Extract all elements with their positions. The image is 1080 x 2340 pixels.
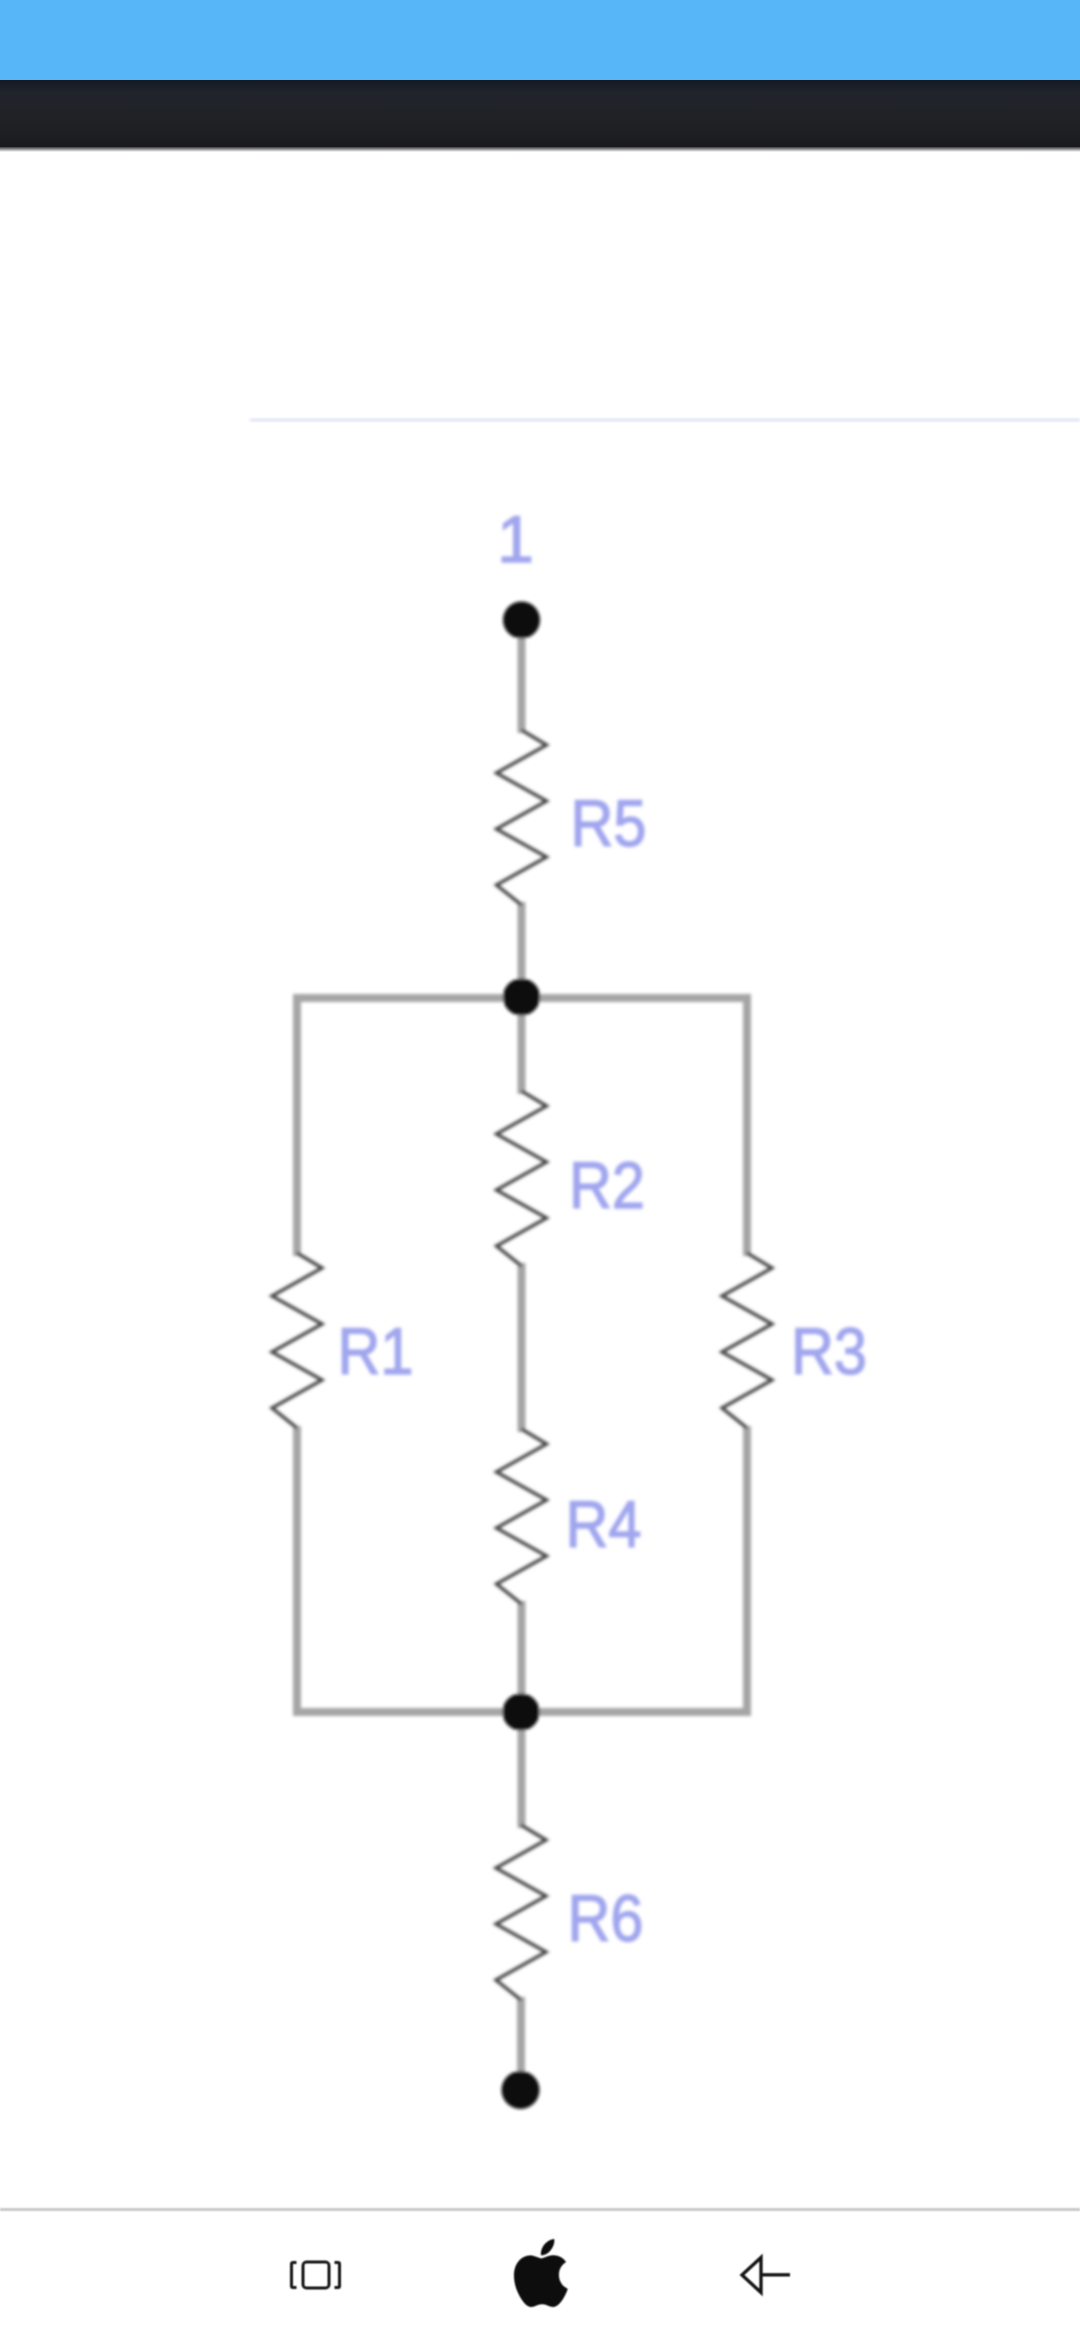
wire left branch upper [293,994,301,1256]
back icon triangle [742,2258,761,2293]
wire top terminal to R5 [518,620,526,733]
recents icon left bracket [292,2263,297,2288]
resistor R5 [497,730,547,905]
svg-text:1: 1 [497,502,534,576]
wire R5 to top junction [518,902,526,998]
wire R4 to bottom junction [518,1601,526,1712]
divider rule top of canvas [250,419,1080,422]
wire bottom rail [297,1708,747,1716]
svg-text:R6: R6 [568,1881,644,1955]
svg-text:R2: R2 [569,1148,645,1222]
wire center junction to R2 [518,998,526,1094]
home icon apple logo [514,2239,568,2307]
wire bottom junction to R6 [518,1712,526,1828]
dark title band [0,80,1080,147]
resistor R6 [496,1825,546,2000]
wire right branch upper [743,994,751,1256]
back icon tail [763,2273,791,2276]
wire right branch lower [743,1426,751,1716]
wire R6 to bottom terminal [517,1997,525,2090]
recents icon square [303,2262,329,2288]
resistor R2 [497,1091,547,1266]
recents icon right bracket [335,2263,340,2288]
svg-text:R4: R4 [566,1487,642,1561]
wire top rail [297,994,747,1002]
resistor R1 [272,1253,322,1428]
junction bottom node [503,1694,540,1731]
svg-text:R1: R1 [338,1314,414,1388]
node 1 terminal dot [503,602,540,639]
nav bar separator [0,2208,1080,2211]
wire R2 to R4 [518,1263,526,1432]
bottom terminal dot [502,2071,540,2109]
svg-text:R5: R5 [571,786,647,860]
junction top node [503,979,540,1016]
svg-text:R3: R3 [791,1314,867,1388]
resistor R4 [497,1429,547,1604]
status bar blue band [0,0,1080,80]
resistor R3 [722,1253,772,1428]
wire left branch lower [293,1426,301,1716]
